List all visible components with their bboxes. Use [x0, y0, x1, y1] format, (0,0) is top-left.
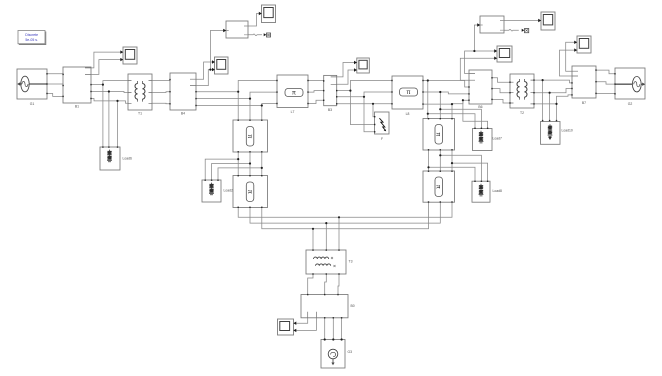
svg-text:L7: L7 [291, 110, 295, 114]
svg-text:π: π [406, 90, 410, 96]
svg-text:Load8: Load8 [493, 189, 503, 193]
svg-text:G1: G1 [30, 102, 35, 106]
svg-text:π: π [292, 91, 296, 97]
svg-text:B1: B1 [75, 105, 79, 109]
svg-text:B0: B0 [351, 304, 355, 308]
svg-text:B7: B7 [582, 101, 586, 105]
svg-text:B4: B4 [181, 112, 185, 116]
svg-text:π: π [435, 132, 441, 136]
svg-text:π: π [246, 190, 252, 194]
svg-text:G2: G2 [628, 102, 633, 106]
svg-text:Load6: Load6 [123, 157, 133, 161]
svg-text:π: π [246, 134, 252, 138]
svg-text:T1: T1 [138, 112, 142, 116]
svg-text:F: F [381, 137, 383, 141]
svg-text:Load10: Load10 [562, 129, 573, 133]
svg-text:T2: T2 [520, 111, 524, 115]
svg-text:Load7: Load7 [493, 137, 503, 141]
svg-text:G3: G3 [348, 350, 353, 354]
svg-text:Discrete: Discrete [25, 33, 38, 37]
svg-text:L8: L8 [406, 112, 410, 116]
svg-text:π: π [435, 185, 441, 189]
svg-text:B3: B3 [328, 108, 332, 112]
svg-text:Load2: Load2 [224, 189, 234, 193]
svg-text:B6: B6 [478, 105, 482, 109]
svg-text:T3: T3 [349, 260, 353, 264]
svg-text:5e-05 s.: 5e-05 s. [25, 38, 38, 42]
